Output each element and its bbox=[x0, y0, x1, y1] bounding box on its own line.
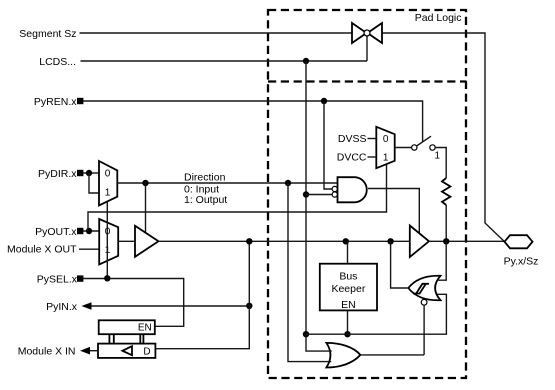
svg-text:Module X OUT: Module X OUT bbox=[7, 243, 77, 255]
wire PyDIR.x to mux bbox=[83, 172, 99, 174]
node Direction to OR gate bbox=[285, 180, 291, 186]
wire OR output bbox=[360, 354, 424, 356]
mux U1 direction select bbox=[99, 161, 117, 205]
svg-text:EN: EN bbox=[341, 299, 356, 311]
svg-text:PyIN.x: PyIN.x bbox=[46, 301, 78, 313]
node pad junction resistor bbox=[443, 238, 449, 244]
wire Module X OUT to mux bbox=[79, 248, 99, 250]
wire NAND output to driver enable bbox=[368, 189, 419, 234]
latch L1 legs bbox=[109, 334, 143, 343]
outer dashed box Pad Logic bbox=[268, 10, 466, 378]
node pad junction keeper bbox=[343, 238, 349, 244]
wire buffer enable bbox=[145, 183, 147, 233]
terminal PyREN.x bbox=[77, 98, 83, 104]
node keeper EN junction bbox=[344, 331, 350, 337]
transmission gate S1 bbox=[352, 23, 382, 61]
wire PyIN line bbox=[88, 305, 249, 307]
svg-text:Keeper: Keeper bbox=[331, 283, 365, 295]
svg-text:1: 1 bbox=[383, 152, 389, 163]
svg-text:1: 1 bbox=[435, 151, 441, 162]
svg-text:D: D bbox=[143, 346, 150, 357]
terminal PyOUT.x bbox=[77, 228, 83, 234]
node PyIN junction bbox=[246, 303, 252, 309]
wire keeper EN line bbox=[306, 294, 446, 334]
wire Module X IN bbox=[87, 350, 98, 352]
svg-text:PyDIR.x: PyDIR.x bbox=[38, 168, 77, 180]
svg-text:Bus: Bus bbox=[339, 271, 357, 283]
node PySEL junction bbox=[104, 275, 110, 281]
wire Direction line bbox=[117, 182, 337, 184]
svg-text:Module X IN: Module X IN bbox=[18, 345, 76, 357]
wire Direction to OR gate input bbox=[288, 183, 322, 362]
terminal PyDIR.x bbox=[77, 170, 83, 176]
mux U2 output select bbox=[99, 219, 118, 265]
NAND gate G1 bbox=[338, 177, 367, 202]
wire PyOUT.x to mux bbox=[83, 230, 99, 232]
node PyOUT junction bbox=[86, 228, 92, 234]
svg-text:0: 0 bbox=[105, 169, 111, 180]
wire PyOUT to pull select bbox=[88, 164, 387, 231]
svg-text:0: 0 bbox=[383, 134, 389, 145]
OR gate G3 bbox=[326, 343, 360, 368]
buffer U5 pad driver bbox=[410, 226, 429, 258]
wire DVCC input bbox=[368, 156, 377, 158]
wire schmitt output to pad line bbox=[391, 241, 409, 288]
bubble NAND input 1 bbox=[332, 186, 337, 191]
switch SW1 bbox=[412, 145, 417, 150]
latch L1 D box bbox=[98, 344, 155, 358]
svg-text:Py.x/Sz: Py.x/Sz bbox=[504, 256, 539, 268]
svg-text:LCDS...: LCDS... bbox=[39, 56, 76, 68]
bubble schmitt enable bbox=[421, 299, 427, 305]
pad Py.x/Sz hexagon bbox=[505, 235, 533, 248]
svg-text:Direction: Direction bbox=[184, 172, 226, 184]
wire mux output to switch bbox=[395, 147, 412, 149]
wire PyREN to NAND bubble bbox=[324, 101, 332, 189]
wire DVSS input bbox=[368, 138, 377, 140]
node pad line to PyIN bbox=[246, 238, 252, 244]
wire switch to resistor bbox=[435, 148, 446, 179]
inner dashed divider bbox=[268, 80, 466, 82]
svg-text:Pad Logic: Pad Logic bbox=[415, 12, 462, 24]
wire pad data line bbox=[159, 240, 410, 242]
wire schmitt enable from OR bbox=[423, 305, 425, 355]
wire keeper EN bottom bbox=[347, 310, 349, 334]
wire pad to PyIN column bbox=[155, 241, 249, 348]
wire pad to schmitt input bbox=[437, 241, 446, 280]
svg-text:PyREN.x: PyREN.x bbox=[34, 96, 77, 108]
svg-text:Segment Sz: Segment Sz bbox=[19, 28, 76, 40]
wire PySEL line bbox=[83, 279, 184, 327]
wire PyREN.x line bbox=[83, 101, 423, 142]
wire keeper top bbox=[347, 241, 349, 263]
wire output line bbox=[118, 240, 135, 242]
svg-text:1: 1 bbox=[105, 188, 111, 199]
wire PyDIR to mux input 1 bbox=[89, 173, 99, 193]
node Direction to buffer enable bbox=[142, 180, 148, 186]
arrow Module X IN bbox=[80, 347, 90, 355]
svg-text:DVCC: DVCC bbox=[337, 152, 367, 164]
wire OR input stubs bbox=[322, 351, 332, 362]
node pad junction schmitt bbox=[387, 238, 393, 244]
svg-text:EN: EN bbox=[138, 323, 152, 334]
node LCDS to keeper line bbox=[303, 331, 309, 337]
bubble NAND input 2 bbox=[332, 192, 337, 197]
wire resistor to pad bbox=[445, 205, 447, 241]
wire Segment Sz line right bbox=[382, 33, 505, 242]
node LCDS to NAND bbox=[303, 191, 309, 197]
svg-text:PyOUT.x: PyOUT.x bbox=[35, 226, 77, 238]
box Bus Keeper bbox=[320, 264, 377, 311]
svg-text:PySEL.x: PySEL.x bbox=[37, 273, 78, 285]
latch L1 EN box bbox=[99, 320, 155, 334]
node PyDIR junction bbox=[86, 170, 92, 176]
buffer U3 bbox=[135, 226, 159, 257]
wire mux select column bbox=[106, 201, 108, 278]
node LCDS junction bbox=[303, 58, 309, 64]
schmitt trigger G2 input buffer bbox=[408, 276, 440, 305]
arrow PyIN.x bbox=[82, 302, 92, 310]
svg-text:1: Output: 1: Output bbox=[184, 194, 227, 206]
mux U4 DVSS DVCC bbox=[376, 127, 394, 168]
wire LCDS to NAND bubble bbox=[306, 194, 332, 196]
svg-text:DVSS: DVSS bbox=[338, 133, 367, 145]
node PyREN junction bbox=[321, 98, 327, 104]
wire driver output to pad bbox=[429, 240, 505, 242]
wire LCDS line bbox=[81, 60, 368, 62]
terminal PySEL.x bbox=[77, 275, 83, 281]
wire LCDS vertical to NAND and OR bbox=[306, 61, 322, 351]
resistor R1 bbox=[442, 178, 450, 205]
wire Segment Sz line left bbox=[80, 32, 353, 34]
